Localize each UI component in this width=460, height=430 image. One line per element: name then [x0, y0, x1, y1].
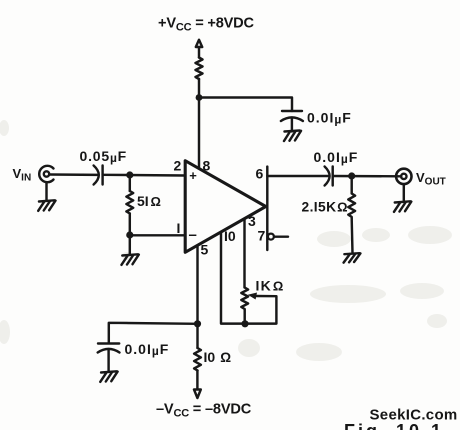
- svg-text:I0: I0: [224, 228, 236, 244]
- svg-text:0.05µF: 0.05µF: [80, 148, 128, 165]
- svg-text:3: 3: [248, 213, 256, 229]
- svg-text:2.I5KΩ: 2.I5KΩ: [302, 200, 348, 215]
- svg-text:IKΩ: IKΩ: [256, 278, 285, 294]
- svg-text:5: 5: [201, 242, 209, 258]
- svg-text:0.0IµF: 0.0IµF: [314, 149, 359, 166]
- svg-text:–VCC = –8VDC: –VCC = –8VDC: [156, 402, 252, 420]
- svg-text:0.0IµF: 0.0IµF: [125, 341, 170, 358]
- svg-text:7: 7: [258, 228, 266, 244]
- svg-text:0.0IµF: 0.0IµF: [307, 110, 352, 127]
- svg-text:Fig. 10-1: Fig. 10-1: [344, 421, 444, 430]
- svg-text:–: –: [189, 227, 197, 244]
- svg-text:8: 8: [203, 158, 211, 174]
- svg-text:I: I: [177, 220, 181, 236]
- svg-text:+: +: [189, 168, 197, 183]
- svg-text:6: 6: [256, 166, 264, 182]
- svg-text:2: 2: [174, 158, 182, 174]
- svg-text:+VCC = +8VDC: +VCC = +8VDC: [158, 16, 255, 34]
